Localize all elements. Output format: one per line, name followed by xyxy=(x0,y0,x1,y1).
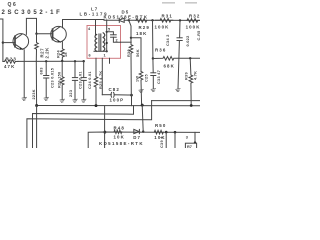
wire bottom row xyxy=(88,132,200,148)
resistor R27 xyxy=(35,34,39,62)
node R36 left xyxy=(152,57,154,59)
ground C28 xyxy=(44,97,49,100)
diode D7 xyxy=(134,129,140,133)
capacitor C82 xyxy=(102,92,131,97)
node bus R39 xyxy=(190,104,193,107)
node L7 inner top xyxy=(106,31,108,33)
ground C31 xyxy=(73,99,78,102)
svg-text:D7: D7 xyxy=(133,135,141,140)
svg-text:R23: R23 xyxy=(6,57,17,62)
svg-text:2SC3052-1F: 2SC3052-1F xyxy=(2,10,63,16)
svg-text:6: 6 xyxy=(89,54,91,58)
svg-text:47K: 47K xyxy=(4,64,15,69)
wire top rail right xyxy=(124,19,200,21)
node D5 cathode junction xyxy=(128,19,130,21)
svg-text:1W: 1W xyxy=(136,76,140,82)
svg-text:Q6: Q6 xyxy=(8,2,18,8)
node C82 right xyxy=(130,94,133,97)
node emitter row junction xyxy=(61,60,63,62)
core L7 xyxy=(99,34,101,51)
resistor R24 emitter Q7 upper xyxy=(61,42,65,61)
wire drop to connector xyxy=(194,132,196,143)
svg-text:3: 3 xyxy=(186,135,188,139)
inductor L7 secondary winding xyxy=(103,33,105,51)
svg-text:R39: R39 xyxy=(185,72,189,80)
svg-text:10K: 10K xyxy=(114,134,125,139)
inductor L7 primary winding xyxy=(95,35,97,52)
diode D5 xyxy=(119,18,124,22)
ground R26 xyxy=(60,99,65,102)
resistor R36 xyxy=(153,57,200,61)
wire top-left stub xyxy=(0,19,3,62)
svg-text:C23 0.015: C23 0.015 xyxy=(51,68,55,88)
node connector top xyxy=(194,141,196,143)
module L7 red box xyxy=(87,26,121,59)
svg-text:18: 18 xyxy=(64,52,68,57)
wire return loop xyxy=(27,101,152,148)
resistor R29 xyxy=(136,19,147,23)
resistor R25 xyxy=(94,77,98,106)
resistor R30 xyxy=(129,38,133,95)
capacitor C28 xyxy=(44,61,49,97)
node L7 inner mid xyxy=(106,42,108,44)
faint smudge top right 1 xyxy=(162,2,175,4)
svg-text:R31: R31 xyxy=(162,14,173,19)
svg-text:C24 0.01: C24 0.01 xyxy=(88,71,92,89)
svg-text:18K: 18K xyxy=(136,31,147,36)
wire R29 drop xyxy=(129,20,131,38)
svg-text:1: 1 xyxy=(104,54,106,58)
bus wire GND rail xyxy=(37,105,200,107)
connector box xyxy=(185,143,196,149)
node R50 right xyxy=(165,131,168,134)
node C32 top xyxy=(83,60,85,62)
faint smudge top right 2 xyxy=(185,2,197,4)
svg-text:223: 223 xyxy=(69,90,73,97)
svg-text:4.7K: 4.7K xyxy=(194,71,198,80)
svg-text:R36: R36 xyxy=(155,48,166,53)
svg-text:R26 150: R26 150 xyxy=(58,72,62,88)
svg-text:R32: R32 xyxy=(189,14,200,19)
svg-text:100K: 100K xyxy=(155,24,170,29)
wire bus left drop xyxy=(36,106,38,149)
svg-text:R48: R48 xyxy=(114,125,125,130)
resistor R23 xyxy=(3,60,18,64)
node R36 right xyxy=(189,57,191,59)
svg-text:R25 4.7K: R25 4.7K xyxy=(99,71,103,89)
svg-text:R50: R50 xyxy=(155,123,166,128)
wire R30 to R37 link xyxy=(131,38,141,72)
svg-text:R29: R29 xyxy=(139,25,150,30)
svg-text:683: 683 xyxy=(40,67,44,74)
svg-text:C25: C25 xyxy=(145,74,149,82)
node L7 inner bottom xyxy=(106,50,108,52)
svg-text:2.2K: 2.2K xyxy=(44,47,49,59)
svg-text:KD5158E-RTK: KD5158E-RTK xyxy=(104,15,149,20)
wire loop2 xyxy=(33,106,134,148)
resistor R50 xyxy=(154,130,163,134)
resistor R31 xyxy=(156,19,173,23)
wire to Q7 base xyxy=(37,33,53,35)
wire drop 1 xyxy=(165,132,167,148)
svg-text:2: 2 xyxy=(116,38,118,42)
capacitor C33 xyxy=(151,59,156,89)
resistor R39 xyxy=(189,58,193,105)
wire L7 bottom bar xyxy=(94,50,107,52)
resistor R32 xyxy=(187,19,200,23)
capacitor C32 xyxy=(81,61,86,99)
wire C82 node to bus xyxy=(131,95,133,106)
wire pin2 out xyxy=(121,41,132,43)
transistor Q6 xyxy=(13,34,29,50)
wire Q6 collector up and jog xyxy=(26,18,36,34)
wire Q6 emitter to ground xyxy=(23,50,25,97)
wire drop 2 xyxy=(174,132,176,148)
resistor R37 xyxy=(139,71,143,105)
capacitor L7 internal xyxy=(107,32,121,42)
node C31 top xyxy=(74,60,76,62)
ground C32 xyxy=(82,99,87,102)
node top rail C33 xyxy=(151,19,153,21)
wire pin3 stub xyxy=(109,58,111,63)
ground mark R37 xyxy=(139,89,144,92)
wire pin1 lead xyxy=(101,58,103,94)
wire R27 down to bus xyxy=(35,61,37,105)
wire pin5 lead xyxy=(106,20,108,51)
node bus left xyxy=(35,104,38,107)
transistor Q7 xyxy=(51,26,67,42)
svg-text:C34 2: C34 2 xyxy=(166,34,170,46)
ground C33 xyxy=(151,89,156,92)
svg-text:100P: 100P xyxy=(110,97,125,102)
svg-text:C-R5: C-R5 xyxy=(197,30,200,40)
wire C33 drop xyxy=(152,20,154,58)
wire pin6 lead xyxy=(95,58,97,76)
wire Q6 base xyxy=(3,42,15,44)
svg-text:C23 0.01: C23 0.01 xyxy=(79,71,83,89)
node D7 right xyxy=(142,130,144,132)
node R31 R32 junction xyxy=(179,19,181,21)
svg-text:68K: 68K xyxy=(164,63,175,68)
wire Q7 collector to top rail xyxy=(63,20,119,28)
svg-text:R30: R30 xyxy=(127,49,131,57)
svg-text:0.022: 0.022 xyxy=(186,35,190,46)
node collector R27 junction xyxy=(35,33,37,35)
wire pin4 lead xyxy=(96,20,97,35)
svg-text:R24: R24 xyxy=(57,50,61,58)
capacitor C31 xyxy=(72,61,77,99)
svg-text:5: 5 xyxy=(108,28,110,32)
capacitor C34 xyxy=(177,20,182,88)
svg-text:C82: C82 xyxy=(109,87,120,92)
svg-text:C39 4: C39 4 xyxy=(160,136,164,148)
ground C34 xyxy=(176,89,181,92)
wire bottom branch vertical xyxy=(104,106,106,148)
node R29 R30 junction xyxy=(130,37,132,39)
svg-text:100K: 100K xyxy=(186,24,200,29)
svg-text:KD5158E-RTK: KD5158E-RTK xyxy=(99,141,144,146)
wire emitter row xyxy=(18,60,84,62)
svg-text:56K: 56K xyxy=(136,49,140,57)
rotated small value texts xyxy=(32,30,201,148)
node bus R37 xyxy=(141,104,144,107)
node C28 top xyxy=(45,60,47,62)
node bottom wire left xyxy=(103,131,106,134)
resistor R48 xyxy=(114,130,122,133)
node mid drop xyxy=(174,131,177,134)
svg-text:C33 47: C33 47 xyxy=(157,70,161,84)
resistor R26 lower xyxy=(60,61,64,99)
wire bus to D7 node xyxy=(142,105,143,132)
svg-text:223K: 223K xyxy=(32,89,36,99)
node bus R25 xyxy=(95,104,98,107)
node base Q6 junction xyxy=(2,41,4,43)
svg-text:4: 4 xyxy=(88,27,91,31)
ground Q6 emitter xyxy=(22,97,27,100)
wire aux rail xyxy=(152,100,200,102)
svg-text:R7: R7 xyxy=(187,145,192,148)
